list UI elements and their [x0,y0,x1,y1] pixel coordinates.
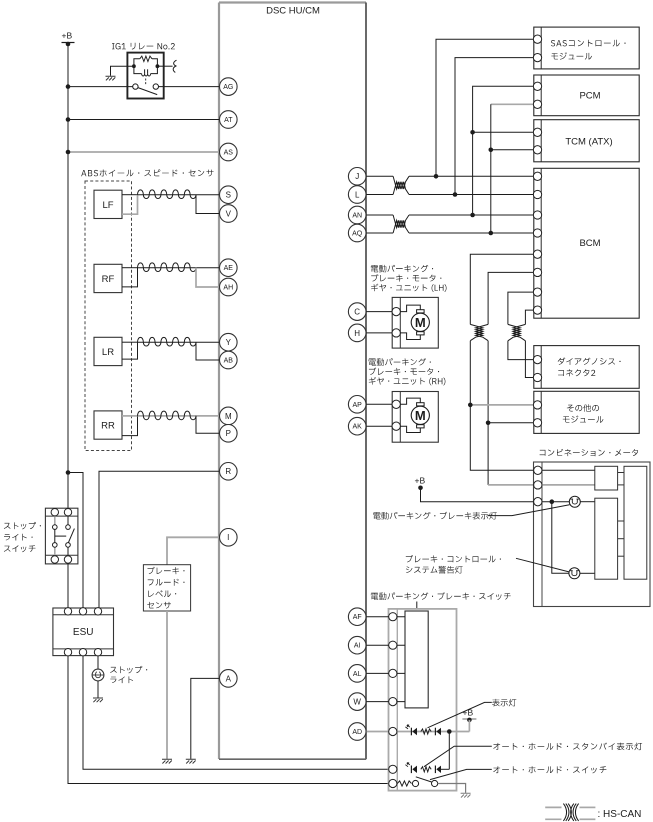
leader to lamp1 [488,505,570,516]
terminal AH [220,278,238,296]
ECU box DSC HU/CM [219,3,366,760]
wire +B drop (gray) [468,720,470,732]
wire CAN-L down [487,341,489,485]
module diagnosis connector 2 [533,346,639,389]
wire terminal R to ESU [99,471,220,611]
ground (terminal A) [186,759,196,763]
junction PCM2/TCM2 [489,148,494,153]
wire CAN J line [366,175,393,177]
wire terminal C to motor LH [366,311,392,313]
LED indicator chain 2 [405,763,449,773]
wire ESU to bottom bus (outer) [68,656,389,784]
junction +B/AG [66,84,71,89]
leader indicator lamp [428,702,492,727]
terminal AG [220,78,238,96]
label stop light [110,666,147,683]
twisted pair BCM7/8 [508,324,520,340]
svg-text:R: R [225,467,231,476]
wire terminal A to ground [191,678,220,759]
twisted sensor cable RF [138,267,197,269]
wire CAN AQ line [366,232,393,234]
wire auto hold switch to ground [438,784,466,793]
svg-text:LF: LF [102,200,113,211]
wire RR to upper terminal [196,415,220,417]
terminal L [348,186,366,204]
svg-text:RR: RR [101,421,115,432]
junction +B/AS [66,150,71,155]
label parking brake switch [371,592,511,600]
terminal AL [348,665,366,683]
svg-text:+B: +B [463,708,474,718]
module other modules [533,391,639,433]
ground (auto hold switch) [461,793,471,797]
terminal S [220,186,238,204]
terminal AT [220,111,238,129]
wire ESU to bottom bus (inner) [83,656,389,769]
svg-text:PCM: PCM [579,90,600,101]
terminal AD [348,723,366,741]
svg-text:A: A [226,674,232,683]
warning lamp (brake control) [569,568,580,579]
wire RF second lead riser [122,268,138,287]
svg-text:AG: AG [223,84,233,91]
combination meter box [534,462,651,607]
ESU box [53,608,114,656]
svg-text:AT: AT [224,117,233,124]
svg-text:W: W [353,697,361,706]
label auto hold switch [493,766,606,773]
terminal W [348,693,366,711]
wire BCM pin6 down [488,272,533,324]
relay IG1 No.2 label [112,43,175,50]
wire relay coil to ground [111,66,134,76]
svg-text:AB: AB [224,358,234,365]
label auto hold standby lamp [493,743,642,751]
svg-text:Y: Y [226,338,232,347]
svg-text:S: S [226,191,231,200]
wire ESU to stop light bulb [97,656,99,669]
label brake control system warning lamp [406,555,501,574]
terminal AF [348,608,366,626]
wire lamp1 to logic [580,501,595,503]
svg-text:L: L [355,190,360,199]
wire LF pair lead [122,194,138,196]
svg-text:AP: AP [353,402,363,409]
svg-text:M: M [415,315,426,330]
leader auto hold standby [424,746,492,767]
label brake fluid level sensor [147,567,184,609]
wire PCM pin2 drop [490,104,492,233]
indicator lamp (parking brake) [569,496,580,507]
junction lamp feed [550,499,555,504]
wire terminal AP to motor RH [366,403,392,405]
switch block box [405,611,428,708]
label parking brake motor LH [371,265,447,292]
wire meter pin1 internal [542,469,595,471]
motor unit RH [392,392,438,443]
relay IG1 No.2 [127,53,163,99]
terminal AN [348,206,366,224]
svg-text:AQ: AQ [352,231,363,238]
svg-text:AH: AH [223,285,233,292]
svg-text:RF: RF [102,274,115,285]
svg-text:AN: AN [352,213,362,220]
ABS sensor dashed enclosure [85,181,132,451]
junction +B/ESU branch [66,470,71,475]
wire meter pin2 internal (gray) [542,484,595,486]
label stop light switch [4,522,41,552]
wire terminal AI to switch [366,644,405,646]
wire LR second lead riser [122,342,138,359]
wire LR to lower terminal [196,342,220,360]
ground (fluid sensor) [162,759,172,763]
wire feed to warning lamp [552,502,569,574]
wire LF to upper terminal [196,194,220,196]
wire CAN-L to meter (gray) [488,484,533,486]
svg-text:+B: +B [415,475,426,485]
wire TCM pin2 [491,149,534,151]
wire BCM pin5 down [470,254,533,324]
junction +B/AT [66,117,71,122]
sensor LR box [94,337,122,365]
wire CAN-H to meter [470,341,533,471]
terminal P [220,425,238,443]
terminal M [220,407,238,425]
wire SAS pin1 drop [436,39,534,176]
power +B (switch) [462,708,476,723]
label ABS wheel speed sensor [81,169,213,176]
wire LR pair lead [122,341,138,343]
svg-text:AL: AL [353,671,362,678]
junction other2 [486,421,491,426]
svg-text:AD: AD [352,729,362,736]
terminal AE [220,259,238,277]
twisted pair J/L [393,176,409,189]
svg-text:ESU: ESU [73,627,94,638]
wire terminal AD to switch (gray) [366,731,469,733]
wire stop light switch to ESU [67,563,69,608]
module TCM (ATX) [533,120,639,162]
wire relay to terminal AG [159,86,220,88]
meter pins [534,466,542,506]
leader to lamp2 [516,558,569,572]
connector break squiggle [173,60,176,72]
junction SAS1/J [434,174,439,179]
wire TCM pin1 [473,131,534,133]
svg-text:C: C [354,307,360,316]
svg-text:AE: AE [224,265,234,272]
wire other modules pin2 [488,422,533,424]
power +B (meter) [415,475,426,490]
wire +B to relay switch [68,86,133,88]
svg-text:BCM: BCM [579,238,600,249]
meter logic box 2 [595,498,618,579]
LED indicator chain 1 [405,725,441,735]
wire SAS pin2 drop [455,58,534,195]
meter internal links [618,473,624,557]
twisted pair AN/AQ [393,215,409,228]
svg-text:AS: AS [224,150,234,157]
sensor RR box [94,411,122,439]
wire terminal I to fluid sensor (gray) [167,537,220,564]
module BCM [533,168,639,318]
svg-text:LR: LR [102,347,114,358]
svg-text:: HS-CAN: : HS-CAN [598,809,642,820]
meter display box [624,466,647,579]
junction other1 [468,403,473,408]
leader auto hold switch [430,769,492,779]
svg-text:AK: AK [353,424,363,431]
auto hold switch [397,777,437,787]
svg-text:M: M [415,408,426,423]
svg-text:AF: AF [353,614,362,621]
meter logic box 1 [595,466,618,490]
terminal V [220,205,238,223]
wire terminal AK to motor RH [366,425,392,427]
wire PCM pin2 (gray) [491,103,534,105]
junction chain1 [447,729,452,734]
svg-text:DSC HU/CM: DSC HU/CM [266,6,320,17]
wire +B vertical bus [67,44,69,509]
parking brake switch unit box [389,609,457,791]
wire RF pair lead [122,267,138,269]
wire +B to terminal AS (gray) [68,151,220,153]
wire fluid sensor to ground (gray) [166,611,168,759]
svg-text:P: P [226,429,231,438]
svg-text:H: H [354,329,360,338]
wire chain1 to chain2 [448,732,450,770]
wire lamp2 to logic [580,572,595,574]
terminal AB [220,351,238,369]
legend HS-CAN twisted pair [545,804,641,821]
twisted sensor cable RR [138,415,197,417]
wire RF to lower terminal [196,268,220,287]
terminal Y [220,333,238,351]
wire +B to terminal AT [68,119,220,121]
terminal H [348,324,366,342]
motor unit LH [392,297,438,348]
wire CAN AN line [366,214,393,216]
svg-text:+B: +B [62,31,73,41]
terminal AP [348,396,366,414]
wire LF to lower terminal [196,195,220,214]
wire +B to meter lamp feed [421,488,570,502]
svg-text:J: J [355,172,359,181]
terminal C [348,303,366,321]
wire BCM pin7 down [508,292,534,324]
wire relay coil continuation [157,65,172,67]
wire terminal W to switch [366,701,405,703]
switch unit pins [389,613,397,788]
wire terminal H to motor LH [366,332,392,334]
label combination meter [540,449,639,456]
junction SAS2/L [453,192,458,197]
terminal AQ [348,224,366,242]
sensor LF box [94,190,122,218]
label parking brake motor RH [369,358,446,385]
stop light bulb [92,669,104,681]
wire RF to upper terminal [196,267,220,269]
svg-text:TCM (ATX): TCM (ATX) [565,136,612,147]
wire terminal AL to switch [366,672,405,674]
svg-text:AI: AI [354,643,361,650]
wire PCM pin1 drop [473,86,534,215]
wire other modules pin1 (gray) [470,404,533,406]
terminal AI [348,636,366,654]
svg-text:I: I [227,533,229,542]
stop light switch [45,508,78,564]
wire LR to upper terminal [196,341,220,343]
ground (relay coil) [106,76,116,80]
ground (stop light) [93,698,103,702]
junction PCM2/AQ [489,231,494,236]
label parking brake indicator lamp [373,512,497,520]
terminal AK [348,417,366,435]
wire RR second lead riser [122,416,138,436]
terminal R [220,463,238,481]
sensor RF box [94,264,122,292]
terminal A [220,670,238,688]
wire CAN L line [366,194,393,196]
terminal AS [220,143,238,161]
wire to diagnosis connector pin1 [508,341,534,360]
wire to diagnosis connector pin2 [525,341,533,378]
terminal I [220,529,238,547]
label indicator lamp [492,699,516,707]
terminal J [348,168,366,186]
brake fluid level sensor box [143,565,190,611]
wire RR to lower terminal [196,416,220,433]
junction PCM1/TCM1 [470,130,475,135]
wire BCM pin8 down [525,310,533,324]
module SAS control module [533,27,639,69]
wire terminal AF to switch [366,616,405,618]
twisted sensor cable LF [138,194,197,196]
power +B (top left) [62,31,75,47]
twisted sensor cable LR [138,341,197,343]
leader to switch unit [416,602,418,610]
twisted pair BCM5/6 [470,324,483,340]
svg-text:M: M [225,412,232,421]
wire bulb to ground [97,681,99,698]
wire LF second lead riser [122,195,138,215]
module PCM [533,75,639,116]
junction PCM1/AN [470,213,475,218]
wire +B branch to ESU [68,473,83,612]
svg-text:V: V [226,209,232,218]
wire RR pair lead [122,415,138,417]
